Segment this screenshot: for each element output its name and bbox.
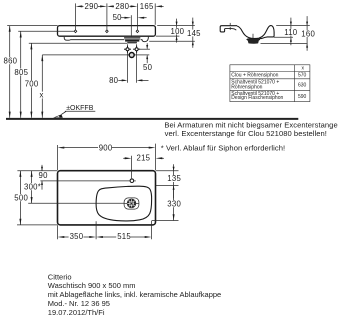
svg-text:±OKFFB: ±OKFFB: [66, 105, 94, 112]
section view: drain cap: [247, 38, 261, 41]
dimension 90: [17, 165, 135, 190]
svg-text:145: 145: [187, 29, 201, 38]
dimension 700: [29, 43, 128, 118]
svg-text:50: 50: [113, 13, 123, 22]
dimension 900: [58, 143, 156, 170]
front view: drain cap bottom collar: [127, 42, 137, 44]
waste pipe right line: [136, 44, 138, 82]
front view: fixing hole diamond 2: [106, 30, 109, 33]
label 860: [3, 57, 18, 66]
plan view: drain center square: [130, 202, 133, 205]
plan view: drain gear ring: [128, 200, 135, 207]
svg-text:Citterio: Citterio: [48, 272, 72, 281]
svg-text:280: 280: [115, 2, 129, 11]
svg-text:135: 135: [167, 174, 181, 183]
svg-text:19.07.2012/Th/Fi: 19.07.2012/Th/Fi: [48, 308, 105, 317]
dimension 50 vertical: [139, 43, 153, 72]
svg-text:350: 350: [70, 232, 84, 241]
svg-text:860: 860: [4, 57, 18, 66]
svg-text:* Verl. Ablauf für Siphon erfo: * Verl. Ablauf für Siphon erforderlich!: [161, 143, 285, 152]
dimension 50 top: [113, 13, 147, 37]
svg-text:110: 110: [284, 28, 298, 37]
front view: right foot: [141, 37, 149, 42]
svg-text:330: 330: [167, 199, 181, 208]
svg-text:x: x: [40, 90, 44, 99]
svg-text:Mod.- Nr. 12 36 95: Mod.- Nr. 12 36 95: [48, 299, 110, 308]
svg-text:570: 570: [298, 73, 307, 79]
dimension 110: [274, 18, 310, 46]
svg-text:900: 900: [99, 143, 113, 152]
label OKFFB: [65, 105, 96, 112]
dimension 135 and 330: [152, 164, 182, 220]
dimension 500: [14, 171, 58, 225]
plan view: tap hole: [130, 179, 134, 183]
dimension x: [41, 55, 149, 118]
floor line OKFFB: [6, 118, 298, 120]
front view: fixing hole diamond 1: [74, 30, 77, 33]
label 805: [14, 68, 29, 77]
section view: bowl curve with front rim horn: [237, 26, 274, 39]
svg-text:Röhrensiphon: Röhrensiphon: [231, 85, 262, 91]
dimension 160: [261, 16, 316, 51]
dimension 80: [109, 76, 148, 85]
plan view: drain axis ticks: [124, 202, 127, 204]
wall outlet circle: [129, 53, 134, 58]
front view: drain cap middle band: [125, 40, 139, 42]
section view: drain axis tick: [252, 34, 254, 38]
svg-text:Clou + Röhrensiphon: Clou + Röhrensiphon: [231, 73, 278, 79]
dimension 290: [76, 2, 107, 30]
svg-text:165: 165: [140, 2, 154, 11]
section view: tap hole tick: [229, 23, 231, 26]
plan view: basin outline: [58, 171, 156, 225]
svg-text:50: 50: [143, 63, 153, 72]
dimension 145: [149, 18, 201, 48]
svg-text:515: 515: [117, 232, 131, 241]
dimension 165: [137, 2, 163, 30]
svg-text:215: 215: [137, 154, 151, 163]
waste pipe left line: [127, 44, 129, 82]
section view: deck and back hook: [220, 26, 237, 32]
dimension 280: [107, 2, 137, 30]
plan view: drain center dot: [131, 203, 132, 204]
plan view: drain outer circle: [127, 199, 136, 208]
svg-text:590: 590: [298, 94, 307, 100]
plan view: drain squircle: [124, 198, 139, 209]
front view: drain cap upper band (hatched): [124, 37, 140, 39]
front view: basin slab: [58, 26, 156, 37]
label x: [39, 90, 44, 99]
section view: deck underside line: [225, 29, 237, 31]
svg-text:Design Flaschensiphon: Design Flaschensiphon: [231, 95, 283, 101]
svg-text:700: 700: [25, 80, 39, 89]
svg-text:80: 80: [109, 76, 119, 85]
front view: left foot and apron line: [64, 37, 124, 40]
svg-text:500: 500: [14, 193, 28, 202]
svg-text:mit Ablagefläche links, inkl.: mit Ablagefläche links, inkl. keramische…: [48, 290, 221, 299]
svg-text:630: 630: [298, 82, 307, 88]
svg-text:300*: 300*: [24, 182, 41, 191]
svg-text:Waschtisch 900 x 500 mm: Waschtisch 900 x 500 mm: [48, 281, 136, 290]
level mark triangle: [53, 114, 63, 117]
svg-text:verl. Excenterstange für Clou: verl. Excenterstange für Clou 521080 bes…: [165, 129, 327, 138]
svg-text:90: 90: [39, 171, 49, 180]
dimension 300*: [23, 171, 124, 204]
svg-text:160: 160: [301, 30, 315, 39]
dimension 805: [18, 31, 74, 118]
label 700: [24, 80, 39, 89]
dimension 350 and 515: [58, 221, 152, 242]
svg-text:100: 100: [171, 27, 185, 36]
svg-text:805: 805: [14, 68, 28, 77]
plan view: bowl outline: [96, 186, 152, 221]
table: [230, 65, 310, 102]
dimension 860: [7, 26, 57, 118]
crosshair symbol left: [124, 46, 131, 53]
crosshair symbol right: [133, 46, 140, 53]
dimension 100: [156, 19, 195, 43]
front view: fixing hole diamond 3: [136, 30, 139, 33]
dimension 215: [123, 154, 164, 179]
svg-text:290: 290: [85, 2, 99, 11]
